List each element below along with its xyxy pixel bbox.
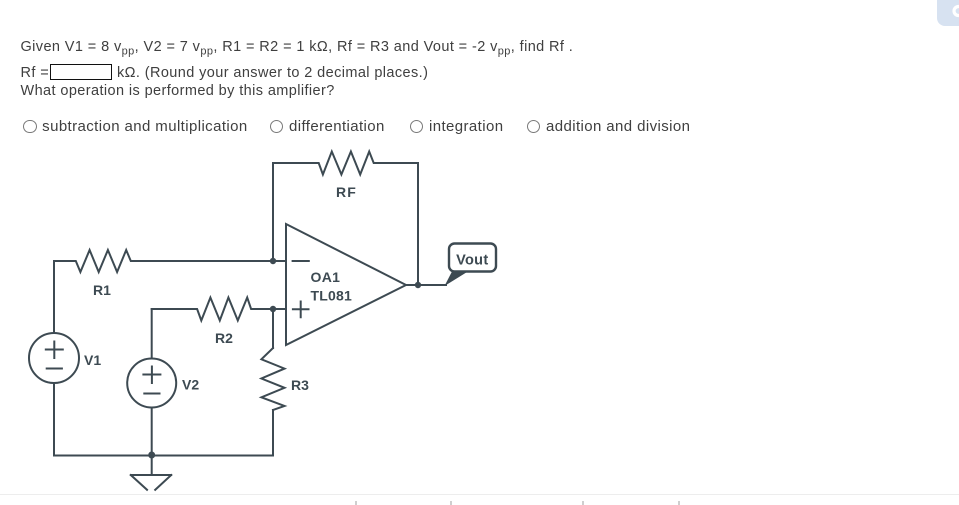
op-amp OA1 triangle	[286, 224, 406, 345]
label OA1	[311, 269, 341, 285]
svg-text:R2: R2	[215, 330, 233, 346]
node output junction	[415, 282, 421, 288]
node inverting input junction	[270, 258, 276, 264]
wire R3 top lead	[272, 309, 274, 348]
radio option: subtraction and multiplication	[23, 118, 247, 135]
node ground junction	[148, 452, 155, 459]
wire V1 top to R1	[53, 261, 55, 333]
svg-text:TL081: TL081	[311, 288, 352, 304]
wire bottom rail	[54, 455, 273, 457]
voltage source V1	[29, 333, 79, 383]
faint glyph tops at bottom edge	[355, 501, 357, 505]
label R1	[93, 282, 111, 298]
label R3	[291, 377, 309, 393]
wire output	[406, 284, 446, 286]
answer input box	[50, 64, 112, 81]
radio option: integration	[410, 118, 503, 135]
label V2	[182, 377, 199, 393]
svg-text:OA1: OA1	[311, 269, 341, 285]
radio option: differentiation	[270, 118, 385, 135]
radio option: addition and division	[527, 118, 690, 135]
wire inverting input to op-amp	[273, 260, 286, 262]
wire V2 top to R2	[151, 309, 153, 359]
svg-text:V2: V2	[182, 377, 199, 393]
label RF	[336, 184, 357, 200]
svg-text:R1: R1	[93, 282, 111, 298]
wire feedback right vertical	[417, 163, 419, 285]
resistor R2	[152, 298, 273, 321]
svg-text:Vout: Vout	[456, 252, 488, 268]
resistor R1	[54, 250, 273, 272]
faint separator line at bottom	[0, 494, 959, 495]
wire V2 bottom	[151, 408, 153, 456]
svg-text:R3: R3	[291, 377, 309, 393]
wire non-inverting input to op-amp	[273, 308, 286, 310]
svg-text:V1: V1	[84, 352, 101, 368]
label R2	[215, 330, 233, 346]
label Vout callout bubble	[445, 244, 497, 287]
wire feedback left vertical	[272, 163, 274, 261]
op-amp plus input sign	[293, 302, 309, 318]
label V1	[84, 352, 101, 368]
ground	[131, 456, 171, 490]
op-amp minus input sign	[293, 260, 309, 262]
node non-inverting input junction	[270, 306, 276, 312]
badge top-right	[937, 0, 959, 26]
voltage source V2	[127, 359, 176, 408]
problem text line 2 with answer input box	[21, 65, 50, 81]
problem text line 3	[21, 83, 335, 99]
resistor R3	[261, 348, 284, 410]
label TL081	[311, 288, 352, 304]
wire V1 bottom	[53, 383, 55, 456]
svg-text:RF: RF	[336, 184, 357, 200]
wire R3 bottom lead	[272, 410, 274, 456]
problem text line 1	[21, 39, 574, 55]
resistor RF	[273, 152, 418, 175]
